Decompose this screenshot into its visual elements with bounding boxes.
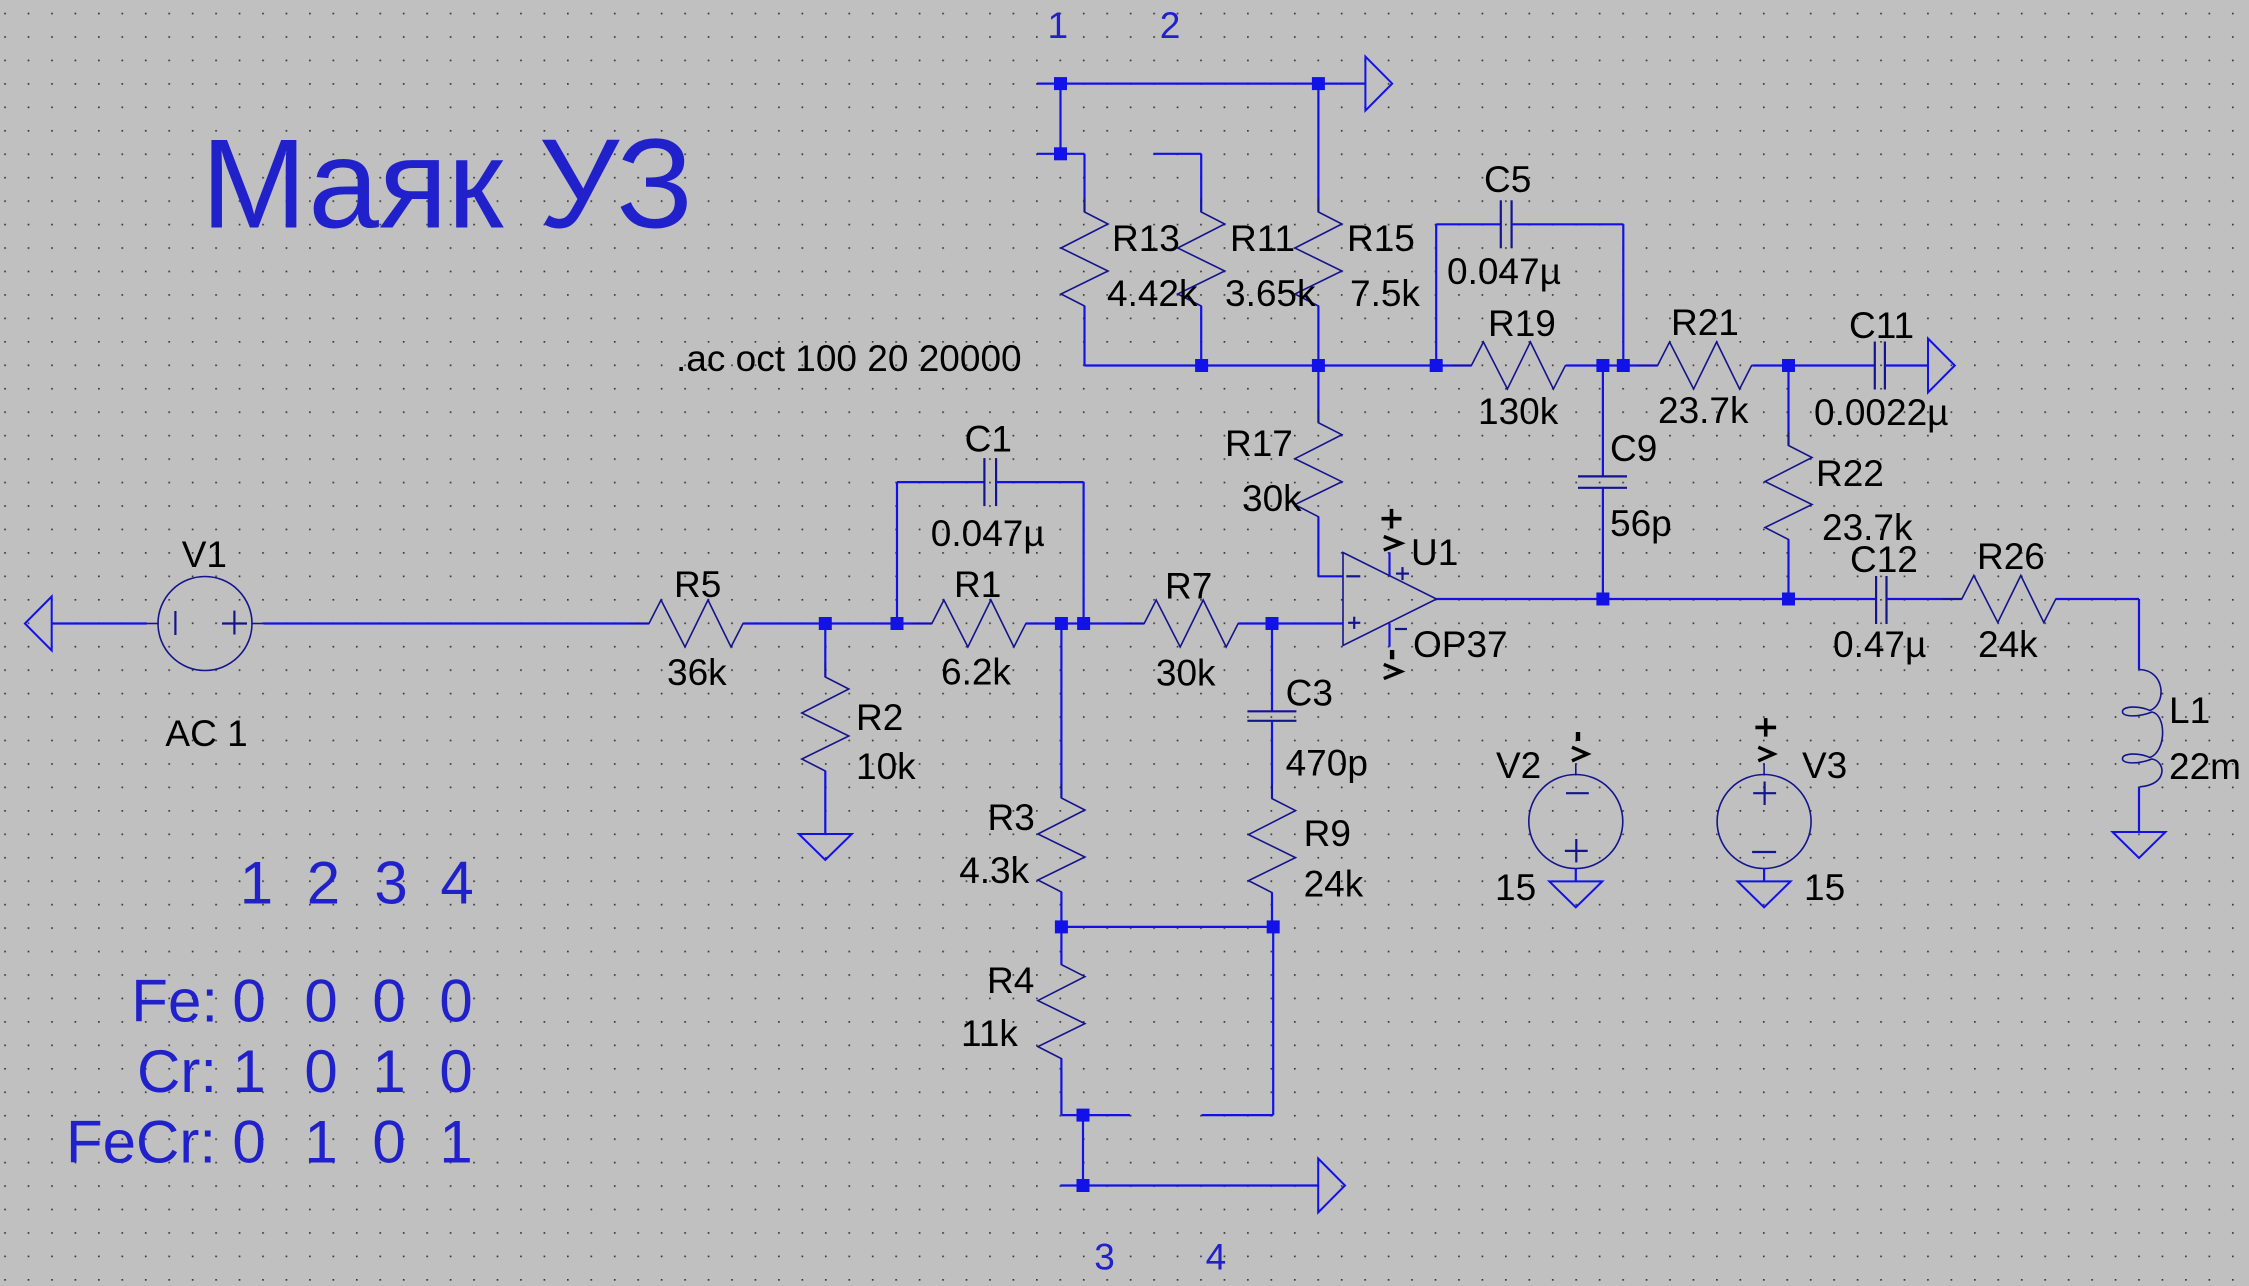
net label + (op-amp) bbox=[1382, 517, 1402, 521]
op-amp V- power pin bbox=[1388, 623, 1390, 646]
svg-text:0.0022µ: 0.0022µ bbox=[1814, 392, 1949, 433]
net label - (V2, rotated) bbox=[1576, 732, 1580, 741]
ground bbox=[799, 834, 852, 860]
svg-text:R17: R17 bbox=[1225, 423, 1293, 464]
op-amp V+ power pin bbox=[1388, 552, 1390, 575]
svg-text:R2: R2 bbox=[856, 697, 903, 738]
wire bbox=[1271, 624, 1273, 712]
wire bbox=[1060, 927, 1062, 965]
resistor R13 bbox=[1061, 198, 1108, 320]
svg-text:R21: R21 bbox=[1671, 302, 1739, 343]
svg-text:1: 1 bbox=[304, 1108, 337, 1175]
junction bbox=[1312, 77, 1325, 90]
resistor R7 bbox=[1124, 600, 1258, 647]
svg-text:U1: U1 bbox=[1411, 532, 1458, 573]
svg-text:24k: 24k bbox=[1304, 864, 1364, 905]
svg-text:R26: R26 bbox=[1977, 536, 2045, 577]
net flag chevron (V2) bbox=[1572, 747, 1587, 761]
wire bbox=[1318, 575, 1343, 577]
svg-text:10k: 10k bbox=[856, 746, 916, 787]
wire bbox=[1271, 893, 1273, 927]
wire bbox=[1887, 598, 1962, 600]
voltage source V1 bbox=[147, 577, 264, 671]
net flag chevron (op-amp V+) bbox=[1384, 537, 1401, 551]
ground bbox=[2113, 832, 2166, 858]
svg-text:30k: 30k bbox=[1156, 653, 1216, 694]
svg-text:0: 0 bbox=[372, 967, 405, 1034]
V3 bottom pin bbox=[1763, 869, 1765, 882]
wire bbox=[1153, 153, 1201, 155]
junction bbox=[1077, 1109, 1090, 1122]
resistor R9 bbox=[1249, 785, 1296, 907]
wire bbox=[1437, 598, 1877, 600]
svg-text:4: 4 bbox=[440, 849, 473, 916]
wire bbox=[2138, 599, 2140, 670]
junction bbox=[891, 617, 904, 630]
junction bbox=[1195, 359, 1208, 372]
junction bbox=[1782, 359, 1795, 372]
svg-text:OP37: OP37 bbox=[1413, 624, 1508, 665]
wire bbox=[743, 622, 932, 624]
svg-text:R5: R5 bbox=[674, 564, 721, 605]
svg-text:0: 0 bbox=[304, 967, 337, 1034]
svg-text:56p: 56p bbox=[1610, 503, 1672, 544]
svg-text:0: 0 bbox=[439, 967, 472, 1034]
wire bbox=[1061, 1114, 1130, 1116]
wire bbox=[1317, 366, 1319, 423]
junction bbox=[1312, 359, 1325, 372]
wire bbox=[1272, 927, 1274, 1115]
capacitor C5 bbox=[1501, 200, 1512, 248]
wire bbox=[1060, 624, 1062, 799]
wire bbox=[1037, 153, 1085, 155]
svg-text:0: 0 bbox=[232, 967, 265, 1034]
wire bbox=[897, 481, 984, 483]
junction bbox=[1596, 593, 1609, 606]
svg-text:R11: R11 bbox=[1230, 218, 1295, 259]
resistor R22 bbox=[1765, 432, 1812, 554]
svg-text:1: 1 bbox=[372, 1038, 405, 1105]
junction bbox=[1267, 920, 1280, 933]
wire bbox=[1566, 364, 1658, 366]
resistor R21 bbox=[1638, 342, 1772, 389]
svg-text:0.47µ: 0.47µ bbox=[1833, 624, 1926, 665]
svg-text:R15: R15 bbox=[1347, 218, 1415, 259]
resistor R1 bbox=[912, 600, 1046, 647]
wire bbox=[1317, 517, 1319, 577]
wire bbox=[1082, 1115, 1084, 1185]
svg-text:C12: C12 bbox=[1850, 539, 1918, 580]
svg-text:C5: C5 bbox=[1484, 159, 1531, 200]
wire bbox=[1436, 223, 1501, 225]
svg-text:7.5k: 7.5k bbox=[1350, 273, 1420, 314]
wire bbox=[896, 482, 898, 623]
resistor R26 bbox=[1942, 576, 2076, 623]
capacitor C12 bbox=[1876, 576, 1886, 624]
wire bbox=[1083, 154, 1085, 212]
svg-text:C3: C3 bbox=[1286, 672, 1333, 713]
wire bbox=[1317, 84, 1319, 212]
voltage source V2 bbox=[1529, 775, 1623, 869]
wire bbox=[1085, 364, 1472, 366]
wire bbox=[1082, 482, 1084, 623]
wire bbox=[1622, 224, 1624, 365]
wire bbox=[1202, 1114, 1274, 1116]
svg-text:30k: 30k bbox=[1242, 478, 1302, 519]
svg-text:Cr:: Cr: bbox=[137, 1038, 217, 1105]
wire bbox=[1435, 224, 1437, 365]
svg-text:R9: R9 bbox=[1304, 813, 1351, 854]
svg-text:.ac oct 100 20 20000: .ac oct 100 20 20000 bbox=[676, 338, 1022, 379]
svg-text:24k: 24k bbox=[1978, 624, 2038, 665]
svg-text:R13: R13 bbox=[1112, 218, 1180, 259]
capacitor C11 bbox=[1875, 342, 1885, 390]
svg-text:R19: R19 bbox=[1488, 303, 1556, 344]
capacitor C1 bbox=[984, 458, 996, 506]
svg-text:L1: L1 bbox=[2169, 690, 2210, 731]
ground bbox=[1738, 881, 1791, 907]
wire bbox=[1026, 622, 1144, 624]
svg-text:C1: C1 bbox=[965, 418, 1012, 459]
wire bbox=[1885, 364, 1928, 366]
wire bbox=[996, 481, 1084, 483]
junction bbox=[1055, 617, 1068, 630]
resistor R15 bbox=[1295, 198, 1342, 320]
svg-text:11k: 11k bbox=[961, 1013, 1018, 1054]
svg-text:3: 3 bbox=[1094, 1236, 1115, 1277]
svg-text:Fe:: Fe: bbox=[131, 967, 218, 1034]
svg-text:4: 4 bbox=[1206, 1236, 1227, 1277]
junction bbox=[1054, 147, 1067, 160]
voltage source V3 bbox=[1717, 775, 1811, 869]
svg-text:470p: 470p bbox=[1286, 743, 1368, 784]
junction bbox=[1266, 617, 1279, 630]
net flag chevron (V3) bbox=[1758, 747, 1773, 761]
net label - (op-amp, rotated) bbox=[1390, 650, 1394, 659]
wire bbox=[2138, 787, 2140, 832]
resistor R11 bbox=[1178, 198, 1225, 320]
inductor L1 bbox=[2122, 670, 2162, 787]
junction bbox=[1054, 77, 1067, 90]
resistor R5 bbox=[629, 600, 763, 647]
svg-text:FeCr:: FeCr: bbox=[66, 1108, 216, 1175]
resistor R3 bbox=[1038, 784, 1085, 906]
svg-text:R7: R7 bbox=[1165, 565, 1212, 606]
op-amp U1 bbox=[1343, 553, 1437, 646]
wire bbox=[1083, 306, 1085, 366]
svg-text:15: 15 bbox=[1804, 867, 1845, 908]
wire bbox=[1060, 1059, 1062, 1116]
port flag bbox=[1365, 57, 1392, 111]
svg-text:1: 1 bbox=[439, 1108, 472, 1175]
V2 bottom pin bbox=[1575, 869, 1577, 882]
port flag bbox=[1318, 1159, 1345, 1213]
junction bbox=[1617, 359, 1630, 372]
capacitor C3 bbox=[1247, 711, 1296, 721]
svg-text:2: 2 bbox=[307, 849, 340, 916]
svg-text:4.3k: 4.3k bbox=[959, 850, 1029, 891]
ground bbox=[1549, 881, 1602, 907]
svg-text:23.7k: 23.7k bbox=[1658, 390, 1749, 431]
junction bbox=[819, 617, 832, 630]
svg-text:0.047µ: 0.047µ bbox=[931, 513, 1045, 554]
wire bbox=[1271, 721, 1273, 799]
junction bbox=[1055, 920, 1068, 933]
svg-text:AC 1: AC 1 bbox=[165, 713, 247, 754]
svg-text:1: 1 bbox=[232, 1038, 265, 1105]
resistor R19 bbox=[1451, 342, 1585, 389]
wire bbox=[1037, 82, 1365, 84]
svg-text:130k: 130k bbox=[1478, 391, 1559, 432]
junction bbox=[1077, 1179, 1090, 1192]
svg-text:36k: 36k bbox=[667, 652, 727, 693]
svg-text:15: 15 bbox=[1495, 867, 1536, 908]
wire bbox=[52, 622, 147, 624]
wire bbox=[1787, 366, 1789, 446]
svg-text:3.65k: 3.65k bbox=[1225, 273, 1316, 314]
wire bbox=[824, 624, 826, 678]
port flag bbox=[1928, 339, 1955, 393]
junction bbox=[1077, 617, 1090, 630]
wire bbox=[2056, 598, 2139, 600]
wire bbox=[1317, 306, 1319, 366]
resistor R4 bbox=[1038, 951, 1085, 1073]
wire bbox=[1060, 892, 1062, 927]
V2 top pin bbox=[1575, 764, 1577, 776]
wire bbox=[1059, 84, 1061, 154]
resistor R2 bbox=[802, 663, 849, 785]
wire bbox=[1753, 364, 1875, 366]
net flag chevron (op-amp V-) bbox=[1384, 664, 1401, 678]
wire bbox=[1061, 926, 1273, 928]
svg-text:1: 1 bbox=[240, 849, 273, 916]
svg-text:0: 0 bbox=[232, 1108, 265, 1175]
svg-text:R4: R4 bbox=[987, 960, 1034, 1001]
V3 top pin bbox=[1763, 764, 1765, 776]
capacitor C9 bbox=[1578, 476, 1627, 487]
junction bbox=[1596, 359, 1609, 372]
svg-text:V2: V2 bbox=[1496, 745, 1541, 786]
svg-text:3: 3 bbox=[374, 849, 407, 916]
svg-text:6.2k: 6.2k bbox=[941, 652, 1011, 693]
svg-text:2: 2 bbox=[1160, 5, 1181, 46]
svg-text:22m: 22m bbox=[2169, 746, 2241, 787]
wire bbox=[1602, 488, 1604, 599]
svg-text:C9: C9 bbox=[1610, 428, 1657, 469]
svg-text:0: 0 bbox=[304, 1038, 337, 1105]
wire bbox=[1602, 366, 1604, 477]
svg-text:R1: R1 bbox=[954, 564, 1001, 605]
junction bbox=[1430, 359, 1443, 372]
svg-text:0: 0 bbox=[372, 1108, 405, 1175]
wire bbox=[1200, 154, 1202, 212]
svg-text:0.047µ: 0.047µ bbox=[1447, 251, 1561, 292]
svg-text:4.42k: 4.42k bbox=[1107, 273, 1198, 314]
wire bbox=[264, 622, 649, 624]
wire bbox=[1512, 223, 1624, 225]
wire bbox=[824, 771, 826, 834]
svg-text:C11: C11 bbox=[1849, 305, 1914, 346]
svg-text:Маяк УЗ: Маяк УЗ bbox=[201, 113, 693, 255]
wire bbox=[1238, 622, 1343, 624]
svg-text:R22: R22 bbox=[1816, 453, 1884, 494]
junction bbox=[1782, 593, 1795, 606]
svg-text:V1: V1 bbox=[182, 534, 227, 575]
wire bbox=[1060, 1184, 1318, 1186]
net label + (V3) bbox=[1755, 726, 1776, 730]
svg-text:V3: V3 bbox=[1802, 745, 1847, 786]
wire bbox=[1787, 540, 1789, 600]
svg-text:0: 0 bbox=[439, 1038, 472, 1105]
svg-text:1: 1 bbox=[1048, 5, 1069, 46]
port flag bbox=[25, 597, 52, 651]
svg-text:R3: R3 bbox=[988, 797, 1035, 838]
resistor R17 bbox=[1295, 409, 1342, 531]
wire bbox=[1200, 306, 1202, 366]
